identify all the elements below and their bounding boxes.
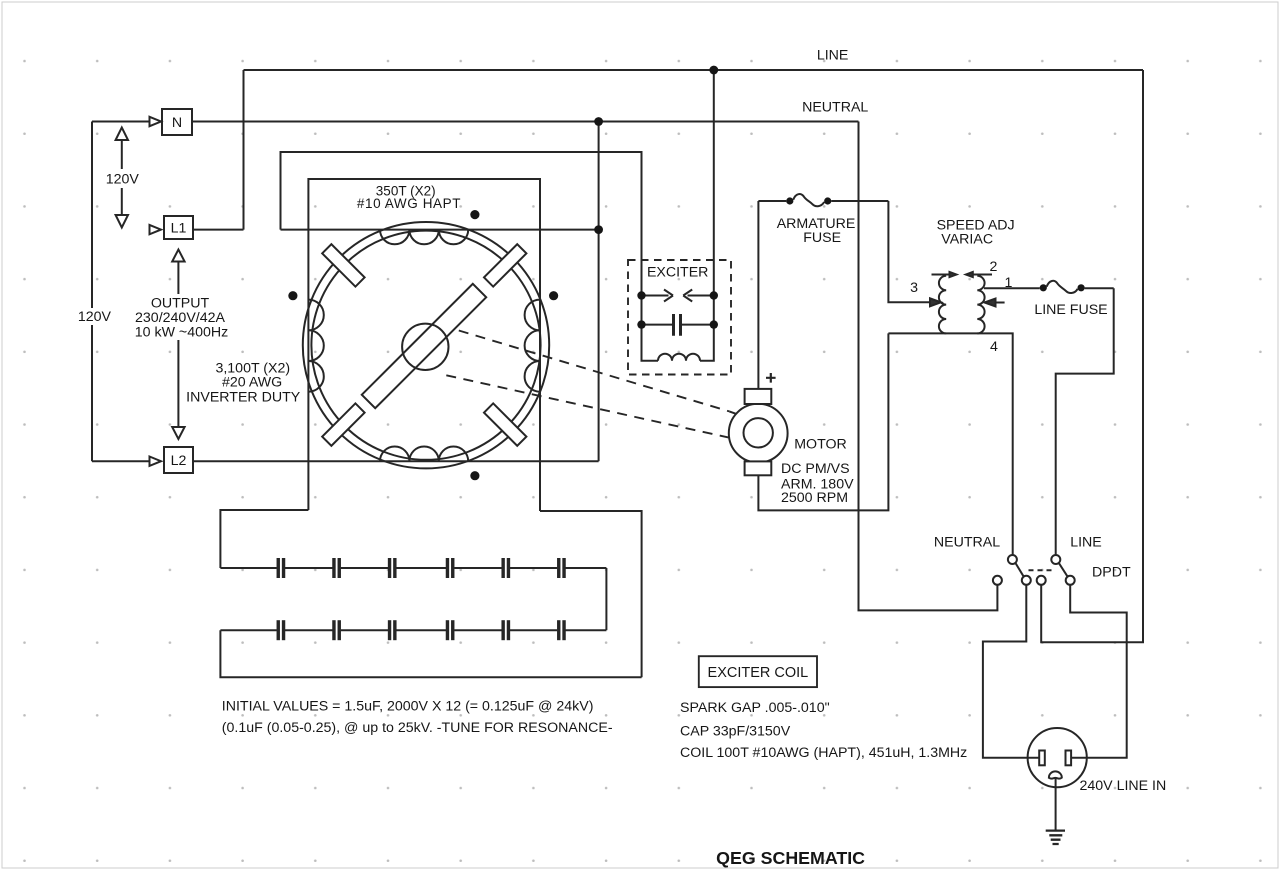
wire cap bank bottom rail <box>220 629 606 631</box>
generator stator outer ring <box>303 222 549 468</box>
wire cap bank bottom return <box>220 630 641 677</box>
svg-text:L1: L1 <box>171 221 187 237</box>
plug P1 240V outer circle <box>1028 728 1087 787</box>
junction dot exciter top left <box>637 291 645 299</box>
svg-text:DC PM/VS: DC PM/VS <box>781 461 850 477</box>
wire fuse to variac wiper pin 3 <box>888 201 929 302</box>
inductor L1 exciter coil <box>658 354 700 361</box>
wire armature fuse branch top <box>758 200 888 202</box>
wire exciter right side from LINE junction <box>700 70 714 361</box>
polarity dot top coil <box>470 210 479 219</box>
wire line fuse to DPDT right common <box>1056 288 1114 555</box>
capacitor C9 plates <box>388 620 391 640</box>
capacitor C8 plates <box>332 620 335 640</box>
svg-text:INVERTER DUTY: INVERTER DUTY <box>186 390 301 406</box>
wire cap bank right link <box>605 568 607 630</box>
svg-text:N: N <box>172 115 182 131</box>
svg-text:CAP 33pF/3150V: CAP 33pF/3150V <box>680 724 791 740</box>
junction dot on LINE at exciter <box>709 66 718 75</box>
coil bumps 350T top <box>380 230 468 245</box>
fuse F2 left terminal dot <box>1040 284 1047 291</box>
generator stator inner ring <box>311 231 540 460</box>
arrow into N <box>150 117 162 126</box>
coil bumps 350T bottom <box>380 447 468 462</box>
DPDT throw contact 3 <box>1037 576 1046 585</box>
svg-text:120V: 120V <box>106 172 140 188</box>
wire 350T top coil lead <box>281 229 599 231</box>
wire LINE left drop to L1 <box>243 70 245 230</box>
svg-text:10 kW ~400Hz: 10 kW ~400Hz <box>135 325 228 341</box>
spark gap right electrode <box>683 290 714 302</box>
capacitor C13 exciter cap wires <box>642 324 714 326</box>
capacitor C13 exciter plates <box>674 314 681 336</box>
junction dot on NEUTRAL at x598 <box>594 117 603 126</box>
wire from N box to left 120V bus <box>92 121 149 123</box>
arrow variac pin 3 wiper <box>930 298 941 306</box>
wire 3100T right lead jog to cap bank <box>540 511 642 677</box>
capacitor C2 plates <box>332 558 335 578</box>
capacitor C3 plates <box>388 558 391 578</box>
fuse F1 armature fuse element <box>793 194 824 206</box>
wire variac pin 4 bar to DPDT common <box>888 333 1012 555</box>
junction dot exciter cap right <box>710 320 718 328</box>
motor M1 bottom terminal block <box>745 461 772 475</box>
fuse F2 right terminal dot <box>1078 284 1085 291</box>
capacitor C11 plates <box>501 620 504 640</box>
shaft dashed line lower <box>446 375 729 437</box>
svg-text:LINE: LINE <box>1070 535 1102 551</box>
svg-text:#10 AWG HAPT: #10 AWG HAPT <box>357 196 461 211</box>
rotor slot SW <box>322 403 364 445</box>
shaft cone line lower inside motor <box>729 431 750 438</box>
svg-text:NEUTRAL: NEUTRAL <box>934 535 1000 551</box>
svg-text:3: 3 <box>910 280 918 296</box>
3100T coil box top and sides <box>308 179 540 511</box>
motor M1 top terminal block <box>745 389 772 404</box>
motor plus terminal mark <box>766 373 776 383</box>
box EXCITER COIL label frame <box>699 656 817 687</box>
svg-text:NEUTRAL: NEUTRAL <box>802 100 868 116</box>
polarity dot left coil <box>288 291 297 300</box>
fuse F2 line fuse element <box>1047 281 1078 293</box>
polarity dot bottom coil <box>470 471 479 480</box>
junction dot exciter cap left <box>637 320 645 328</box>
svg-text:2500 RPM: 2500 RPM <box>781 490 848 506</box>
shaft dashed line upper <box>459 331 730 412</box>
capacitor C7 plates <box>277 620 280 640</box>
variac left winding top bar <box>932 274 951 276</box>
wire L2 / 350T bottom coil lead <box>193 460 599 462</box>
svg-text:COIL 100T #10AWG (HAPT), 451uH: COIL 100T #10AWG (HAPT), 451uH, 1.3MHz <box>680 745 967 761</box>
variac T1 left winding <box>939 276 946 334</box>
svg-text:INITIAL VALUES = 1.5uF, 2000V: INITIAL VALUES = 1.5uF, 2000V X 12 (= 0.… <box>222 699 594 715</box>
svg-text:(0.1uF (0.05-0.25), @ up to 25: (0.1uF (0.05-0.25), @ up to 25kV. -TUNE … <box>222 720 613 736</box>
rotor bar <box>362 284 486 408</box>
variac T1 right winding <box>977 276 984 334</box>
wire DPDT throw4 to plug right pin <box>1070 585 1127 758</box>
wire NEUTRAL right drop <box>859 122 998 611</box>
rotor hub circle <box>402 324 448 370</box>
capacitor C10 plates <box>446 620 449 640</box>
svg-text:1: 1 <box>1005 275 1013 291</box>
DPDT lever right <box>1059 563 1068 577</box>
capacitor C4 plates <box>446 558 449 578</box>
svg-text:VARIAC: VARIAC <box>941 232 993 248</box>
box terminal L1 <box>164 216 193 239</box>
wire plug ground lead <box>1055 779 1057 831</box>
fuse F1 right terminal dot <box>824 197 831 204</box>
wire exciter left side lower <box>642 296 659 361</box>
svg-text:QEG SCHEMATIC: QEG SCHEMATIC <box>716 848 865 868</box>
arrow into L1 <box>150 225 162 234</box>
capacitor C6 plates <box>557 558 560 578</box>
wire cap bank top rail <box>220 567 606 569</box>
svg-text:MOTOR: MOTOR <box>794 437 847 453</box>
junction dot 350T top right end <box>594 225 603 234</box>
wire motor bottom to loop <box>758 333 888 510</box>
svg-text:230/240V/42A: 230/240V/42A <box>135 310 225 326</box>
spark gap left electrode <box>642 290 674 302</box>
shaft cone line upper inside motor <box>729 411 750 418</box>
measure arrow OUTPUT between L1 and L2 <box>177 261 179 428</box>
svg-text:DPDT: DPDT <box>1092 565 1131 581</box>
wire LINE top rail <box>244 69 1144 71</box>
capacitor C1 plates <box>277 558 280 578</box>
DPDT throw contact 2 <box>1022 576 1031 585</box>
ground symbol earth <box>1046 831 1065 844</box>
wire L1 to LINE drop <box>193 229 244 231</box>
wire 3100T left lead jog to cap bank <box>220 510 308 568</box>
motor M1 outer body <box>729 404 788 463</box>
wire neutral tie vertical x=598 <box>598 122 600 462</box>
fuse F1 left terminal dot <box>786 197 793 204</box>
wire outer coil box to exciter <box>281 152 642 296</box>
junction dot exciter top right <box>710 291 718 299</box>
wire motor drop from fuse corner <box>757 201 759 389</box>
DPDT switch S1 common contact right <box>1051 555 1060 564</box>
DPDT switch S1 common contact left <box>1008 555 1017 564</box>
capacitor C5 plates <box>501 558 504 578</box>
motor M1 shaft circle <box>744 418 773 447</box>
DPDT lever dashed link <box>1029 569 1054 571</box>
svg-text:EXCITER: EXCITER <box>647 265 709 281</box>
wire NEUTRAL top rail <box>192 121 859 123</box>
plug P1 left blade slot <box>1039 751 1045 766</box>
svg-text:#20 AWG: #20 AWG <box>222 375 282 391</box>
rotor slot SE <box>484 403 526 445</box>
svg-text:FUSE: FUSE <box>803 230 841 246</box>
plug P1 ground pin dome <box>1049 771 1062 778</box>
rotor slot NW <box>322 244 364 286</box>
DPDT throw contact 4 <box>1066 576 1075 585</box>
DPDT throw contact 1 <box>993 576 1002 585</box>
svg-text:LINE FUSE: LINE FUSE <box>1034 302 1107 318</box>
svg-text:2: 2 <box>989 259 997 275</box>
coil bumps 3100T left <box>308 300 323 392</box>
polarity dot right coil <box>549 291 558 300</box>
DPDT lever left <box>1015 563 1023 577</box>
svg-text:120V: 120V <box>78 309 112 325</box>
arrow variac right wiper stub <box>996 302 1005 304</box>
variac right winding top bar <box>972 274 992 276</box>
measure arrow 120V between N and L1 <box>121 140 123 215</box>
arrow into L2 <box>150 457 162 466</box>
exciter dashed box <box>628 260 731 375</box>
svg-text:4: 4 <box>990 339 998 355</box>
wire variac pin 1 to line fuse <box>984 287 1114 289</box>
rotor slot NE <box>484 244 526 286</box>
wire left 120V bus vertical <box>91 122 93 462</box>
svg-text:L2: L2 <box>171 453 187 469</box>
wire DPDT throw2 to plug left pin <box>983 585 1040 758</box>
arrow variac top left tick <box>950 272 957 277</box>
svg-text:SPARK GAP .005-.010": SPARK GAP .005-.010" <box>680 700 830 716</box>
box terminal N <box>162 109 192 135</box>
capacitor C12 plates <box>557 620 560 640</box>
svg-text:EXCITER COIL: EXCITER COIL <box>708 665 809 681</box>
svg-text:240V LINE IN: 240V LINE IN <box>1080 778 1167 794</box>
arrow variac top right tick <box>966 272 973 277</box>
wire L2 feed <box>92 460 149 462</box>
coil bumps 3100T right <box>525 300 540 392</box>
svg-text:LINE: LINE <box>817 48 849 64</box>
wire LINE right drop to DPDT throw3 <box>1041 70 1143 642</box>
plug P1 right blade slot <box>1066 751 1072 766</box>
box terminal L2 <box>164 447 193 473</box>
